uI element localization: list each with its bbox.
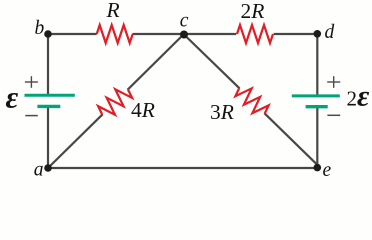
svg-text:ε: ε [6,80,19,115]
node d [314,30,322,38]
battery left (emf ε) long plate [25,94,75,97]
svg-text:b: b [35,18,45,39]
wire a to e (bottom) [48,167,317,169]
wire 4R to c (diagonal upper) [128,34,184,90]
wire b to left battery [47,34,49,94]
minus sign right battery [327,114,340,116]
wire 2R to d [274,33,318,35]
svg-text:R: R [106,0,120,22]
wire c to 3R (diagonal upper) [184,35,240,89]
svg-text:d: d [325,22,335,43]
resistor 3R [233,82,270,119]
node b [44,30,52,38]
wire 3R to e (diagonal lower) [264,113,317,165]
resistor 2R [237,25,273,43]
node c [180,31,188,39]
wire c to 2R [184,33,236,35]
battery right (emf 2ε) long plate [292,94,340,97]
wire R to c [133,33,185,35]
node e [314,164,322,172]
wire right battery to e [316,108,318,168]
resistor 4R [96,83,134,121]
svg-text:e: e [323,160,332,181]
wire left battery to a [47,107,49,168]
wire d to right battery [316,34,318,95]
svg-text:2R: 2R [241,0,265,23]
plus sign right battery [327,76,340,88]
svg-text:4R: 4R [131,98,155,122]
battery left short plate [37,105,60,108]
resistor R [97,25,133,43]
svg-text:c: c [180,10,189,31]
minus sign left battery [25,115,38,117]
plus sign left battery [25,76,38,88]
wire a to 4R (diagonal lower) [48,114,103,168]
battery right short plate [306,105,328,108]
svg-text:3R: 3R [210,100,234,124]
svg-text:a: a [34,159,44,180]
node a [44,164,52,172]
wire b to R [48,33,97,35]
